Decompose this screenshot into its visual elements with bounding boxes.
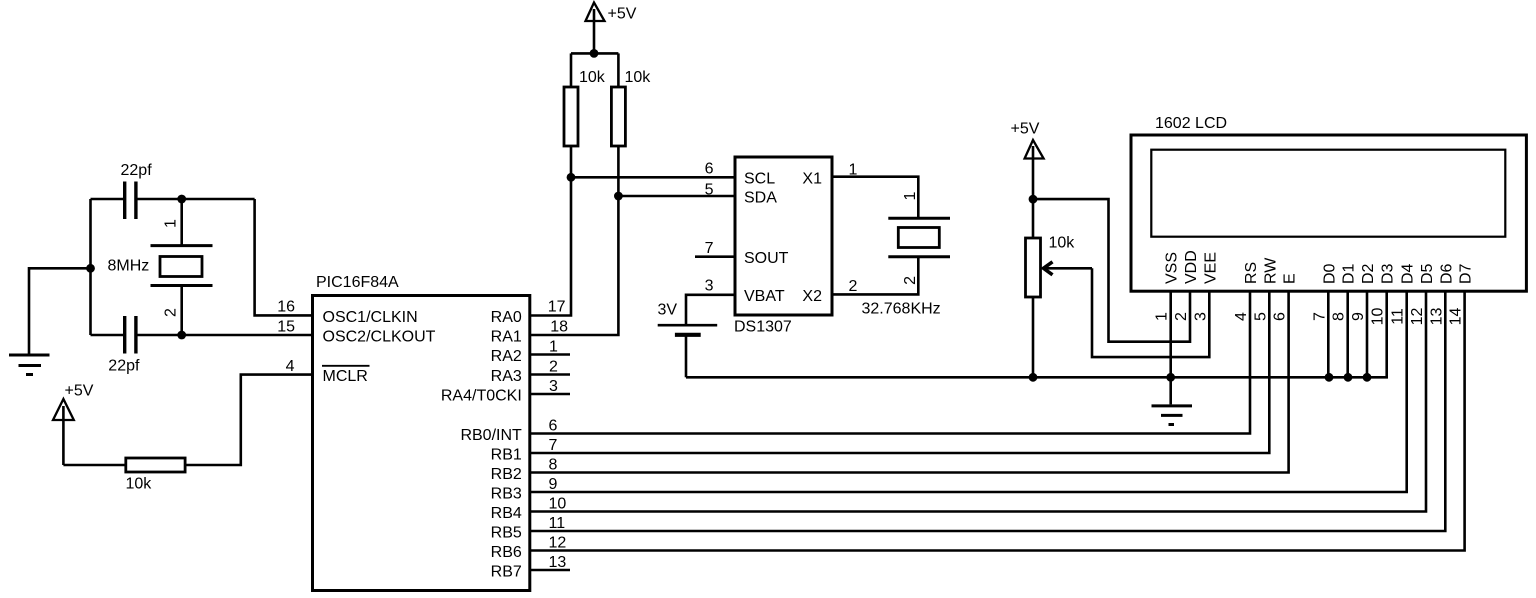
wire LCD pin 1 VSS to ground	[1169, 292, 1172, 378]
svg-text:RB4: RB4	[491, 505, 522, 522]
svg-text:2: 2	[549, 359, 558, 376]
svg-text:1: 1	[1154, 312, 1171, 321]
capacitor C1 22pf (top)	[91, 182, 255, 220]
crystal Y2 32.768KHz	[888, 218, 950, 256]
node dot SDA junction	[614, 192, 623, 201]
wire LCD pin 9 D2 to ground bus	[1366, 292, 1369, 378]
resistor R2 10k (SCL pull-up)	[564, 87, 578, 146]
svg-text:11: 11	[549, 515, 566, 532]
svg-text:RB6: RB6	[491, 544, 522, 561]
svg-text:D1: D1	[1341, 263, 1358, 284]
svg-text:X1: X1	[802, 171, 822, 188]
node dot pot-ground	[1029, 373, 1038, 382]
svg-text:D2: D2	[1360, 263, 1377, 284]
wire SCL to DS1307 pin 6	[571, 176, 735, 179]
power +5V (MCLR pull-up)	[53, 399, 74, 465]
wire LCD pin 11 D4 to RB3	[530, 292, 1407, 492]
svg-text:4: 4	[1233, 312, 1250, 321]
svg-text:5: 5	[1252, 312, 1269, 321]
wire RA3 stub pin 2	[530, 373, 570, 376]
svg-text:E: E	[1282, 273, 1299, 284]
battery BT1 3V	[658, 325, 718, 377]
svg-text:D3: D3	[1380, 263, 1397, 284]
LCD screen inner rect	[1151, 150, 1505, 237]
node dot D0-ground	[1325, 373, 1334, 382]
svg-text:17: 17	[548, 299, 566, 316]
power +5V (LCD)	[1025, 140, 1044, 199]
svg-text:RB0/INT: RB0/INT	[460, 427, 522, 444]
svg-text:13: 13	[549, 554, 567, 571]
node dot D1-ground	[1344, 373, 1353, 382]
svg-text:9: 9	[549, 476, 558, 493]
svg-text:2: 2	[1173, 312, 1190, 321]
node dot VSS-ground	[1166, 373, 1175, 382]
capacitor C2 22pf (bottom)	[91, 316, 182, 354]
node dot C2 / crystal bottom	[177, 331, 186, 340]
svg-text:RA3: RA3	[491, 368, 522, 385]
wire RA4 stub pin 3	[530, 393, 570, 396]
svg-text:3V: 3V	[658, 302, 678, 319]
node junction dot ground stub	[86, 264, 95, 273]
wire resistor to MCLR pin 4	[185, 375, 312, 465]
svg-text:10k: 10k	[126, 476, 153, 493]
resistor R3 10k (SDA pull-up)	[611, 87, 625, 146]
wire LCD pin 12 D5 to RB4	[530, 292, 1426, 512]
svg-text:SOUT: SOUT	[744, 250, 789, 267]
svg-text:+5V: +5V	[608, 6, 637, 23]
crystal Y1 8MHz	[151, 199, 213, 335]
svg-text:X2: X2	[802, 288, 822, 305]
svg-text:9: 9	[1350, 312, 1367, 321]
svg-text:13: 13	[1428, 308, 1445, 326]
svg-text:1: 1	[549, 339, 558, 356]
svg-text:RW: RW	[1262, 257, 1279, 284]
svg-text:RA4/T0CKI: RA4/T0CKI	[441, 388, 522, 405]
svg-text:OSC2/CLKOUT: OSC2/CLKOUT	[323, 329, 436, 346]
svg-text:RA0: RA0	[491, 309, 522, 326]
svg-text:7: 7	[549, 437, 558, 454]
wire LCD pin 6 E to RB2	[530, 292, 1289, 473]
svg-text:+5V: +5V	[65, 383, 94, 400]
svg-text:15: 15	[277, 319, 295, 336]
node dot C1 / crystal top	[177, 195, 186, 204]
svg-text:8: 8	[1331, 312, 1348, 321]
svg-text:22pf: 22pf	[121, 162, 153, 179]
svg-text:PIC16F84A: PIC16F84A	[316, 274, 399, 291]
svg-text:VDD: VDD	[1183, 250, 1200, 284]
svg-text:SCL: SCL	[744, 171, 775, 188]
svg-text:8MHz: 8MHz	[108, 258, 150, 275]
svg-text:RB1: RB1	[491, 447, 522, 464]
wire VBAT pin 3 to battery	[686, 295, 735, 325]
node dot SCL junction	[567, 173, 576, 182]
svg-text:6: 6	[705, 160, 714, 177]
ground (LCD VSS)	[1152, 377, 1193, 424]
svg-text:RS: RS	[1243, 262, 1260, 284]
resistor R1 10k (MCLR pull-up)	[126, 458, 185, 472]
wiper wire to VEE pin 3	[1044, 262, 1210, 357]
wire SOUT stub pin 7	[695, 255, 735, 258]
svg-text:8: 8	[549, 457, 558, 474]
svg-text:18: 18	[550, 319, 568, 336]
svg-text:RB7: RB7	[491, 564, 522, 581]
svg-text:6: 6	[549, 417, 558, 434]
power +5V (pull-up resistors)	[586, 3, 605, 54]
svg-text:D4: D4	[1400, 263, 1417, 284]
wire LCD pin 13 D6 to RB5	[530, 292, 1445, 531]
svg-text:OSC1/CLKIN: OSC1/CLKIN	[323, 309, 418, 326]
svg-text:22pf: 22pf	[108, 358, 140, 375]
svg-text:D5: D5	[1419, 263, 1436, 284]
svg-text:VEE: VEE	[1202, 252, 1219, 284]
svg-text:11: 11	[1390, 308, 1407, 325]
svg-text:16: 16	[277, 299, 295, 316]
svg-text:32.768KHz: 32.768KHz	[862, 301, 941, 318]
wire X2 pin 2 to 32k crystal	[832, 257, 918, 295]
pin name MCLR with overline	[322, 366, 370, 385]
wire +5V to VDD pin 2	[1033, 199, 1190, 342]
op-amp / IC U1 PIC16F84A box	[313, 296, 530, 591]
svg-text:D0: D0	[1321, 263, 1338, 284]
svg-text:10k: 10k	[625, 69, 652, 86]
svg-text:1: 1	[849, 162, 858, 179]
wire SDA to DS1307 pin 5	[618, 195, 735, 198]
wire ground bus	[686, 292, 1387, 378]
wire OSC2 pin 15	[182, 334, 313, 337]
svg-text:3: 3	[549, 378, 558, 395]
svg-text:D7: D7	[1458, 263, 1475, 284]
svg-text:MCLR: MCLR	[323, 368, 368, 385]
svg-text:6: 6	[1272, 312, 1289, 321]
svg-text:7: 7	[1311, 312, 1328, 321]
wire OSC1 pin 16	[255, 199, 313, 315]
node dot D2-ground	[1363, 373, 1372, 382]
wire R3 to RA1 pin 18	[530, 146, 618, 335]
svg-text:12: 12	[549, 535, 567, 552]
node dot +5V LCD junction	[1029, 195, 1038, 204]
svg-text:VSS: VSS	[1164, 252, 1181, 284]
wire LCD pin 4 RS to RB0	[530, 292, 1250, 434]
svg-text:14: 14	[1448, 308, 1465, 326]
wire LCD pin 5 RW to RB1	[530, 292, 1269, 453]
svg-text:10: 10	[1370, 308, 1387, 326]
wire LCD pin 14 D7 to RB6	[530, 292, 1465, 551]
wire left oscillator column	[89, 199, 92, 335]
svg-text:RA1: RA1	[491, 329, 522, 346]
svg-text:12: 12	[1409, 308, 1426, 326]
svg-text:10: 10	[549, 496, 567, 513]
svg-text:1: 1	[902, 191, 919, 200]
svg-text:3: 3	[1192, 312, 1209, 321]
wire R2 to RA0 pin 17	[530, 146, 571, 316]
svg-text:10k: 10k	[1049, 235, 1076, 252]
svg-text:10k: 10k	[579, 69, 606, 86]
wire +5V rail to resistors	[571, 53, 618, 87]
svg-text:1: 1	[163, 219, 180, 228]
svg-text:+5V: +5V	[1011, 121, 1040, 138]
svg-text:SDA: SDA	[744, 190, 777, 207]
svg-text:VBAT: VBAT	[744, 288, 785, 305]
wire +5V to resistor	[63, 464, 125, 467]
wire RA2 stub pin 1	[530, 353, 570, 356]
svg-text:2: 2	[902, 276, 919, 285]
wire LCD pin 7 D0 to ground bus	[1327, 292, 1330, 378]
svg-text:RB2: RB2	[491, 466, 522, 483]
svg-text:D6: D6	[1438, 263, 1455, 284]
wire RB7 stub pin 13	[530, 569, 570, 572]
ground (left, oscillator)	[9, 268, 91, 374]
IC U2 DS1307 box	[735, 157, 832, 315]
svg-text:2: 2	[163, 308, 180, 317]
svg-text:RB5: RB5	[491, 525, 522, 542]
svg-text:RA2: RA2	[491, 348, 522, 365]
svg-text:4: 4	[286, 358, 295, 375]
svg-text:3: 3	[705, 278, 714, 295]
wire LCD pin 8 D1 to ground bus	[1346, 292, 1349, 378]
svg-text:RB3: RB3	[491, 486, 522, 503]
svg-text:1602 LCD: 1602 LCD	[1155, 115, 1227, 132]
wire X1 pin 1 to 32k crystal	[832, 177, 918, 219]
svg-text:DS1307: DS1307	[734, 319, 792, 336]
node dot +5V rail	[590, 49, 599, 58]
svg-text:7: 7	[705, 240, 714, 257]
svg-text:5: 5	[705, 182, 714, 199]
svg-text:2: 2	[849, 278, 858, 295]
LCD module box 1602 LCD	[1131, 135, 1526, 291]
potentiometer R4 10k	[1026, 199, 1041, 377]
